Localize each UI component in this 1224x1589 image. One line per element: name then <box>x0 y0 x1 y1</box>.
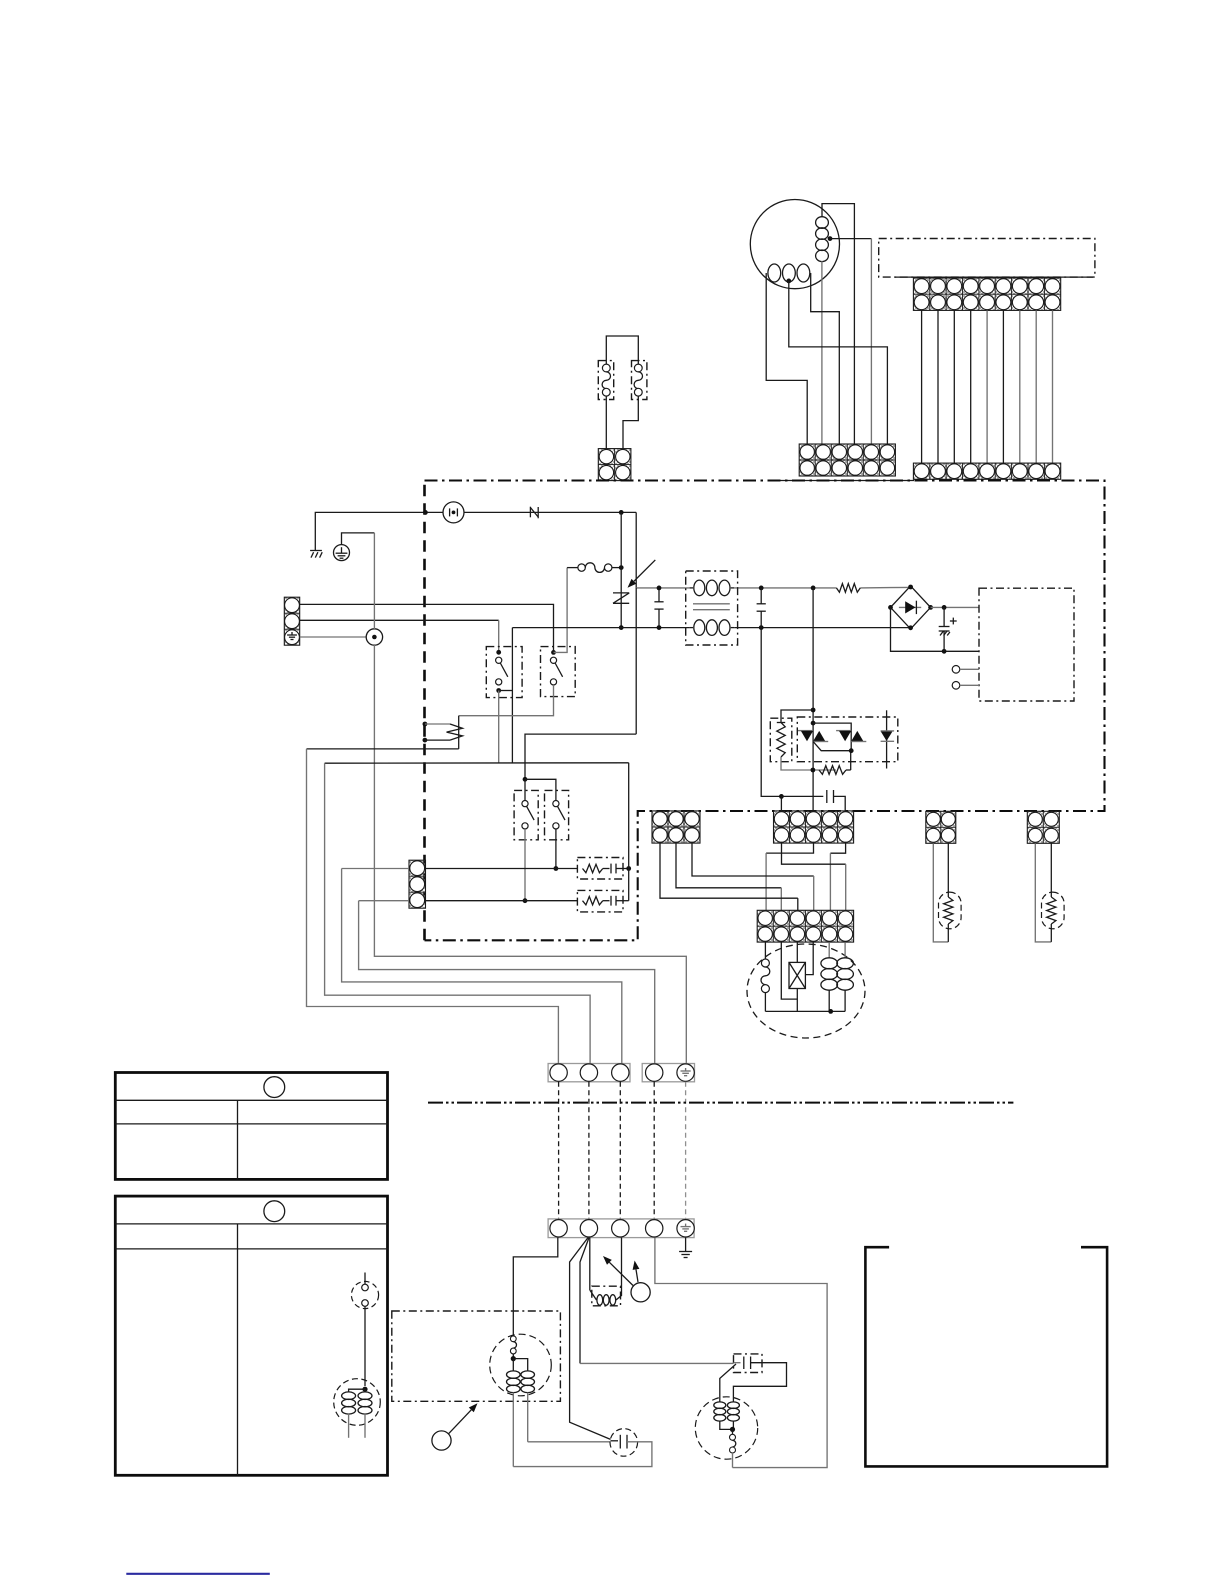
wire feed stub to S4 <box>525 779 556 800</box>
connector CN-PCB block <box>913 278 1060 310</box>
capacitor C1 across rails <box>658 588 660 602</box>
earth stub below ST3 <box>685 1238 687 1252</box>
node element1 to feed drop <box>626 866 631 871</box>
connector CN-TH2 block <box>1027 811 1059 843</box>
outdoor fan assembly dash-dot box <box>392 1311 561 1401</box>
C5 plates <box>734 1362 741 1364</box>
wire feed to PTC resistor <box>781 710 813 723</box>
plus sign of C3 <box>950 620 957 622</box>
relay switch S4 (dash-dot box) <box>545 790 569 839</box>
fan motor FM4 in table (dashed circle) <box>334 1379 381 1426</box>
heater element H2 (dash-dot box with resistor+cutout) <box>577 890 623 912</box>
arrow CL1 up <box>636 1269 638 1282</box>
gate of TR1 <box>813 742 851 751</box>
winding L-main of FM1 (vertical coil) <box>816 217 829 262</box>
diode bridge DB1 <box>891 586 931 629</box>
terminal pin T1 to PCB2 <box>952 666 960 674</box>
varistor branch vertical <box>620 512 622 627</box>
wire C5 left to FM3 left winding (diagonal) <box>720 1364 736 1402</box>
wire TB1-2 to switch S1 (via top) <box>300 619 499 621</box>
indoor control PCB box (dash-dot) <box>879 239 1095 278</box>
compressor winding A <box>828 942 830 958</box>
relay coil L2 (dash-dot box) <box>592 1286 621 1306</box>
relay switch S1 (dash-dot box) <box>486 647 522 698</box>
earth junction circle with dot <box>366 629 382 645</box>
connector CN-TF block <box>598 449 631 481</box>
connector CN-CMP block <box>757 910 853 942</box>
thermal protector TP1 (circle with bars) <box>443 502 464 523</box>
outdoor fan motor FM3 (dashed circle) <box>695 1397 757 1459</box>
thermal fuse TF2 (in dash-dot bracket) <box>632 361 647 400</box>
wire TF2 bottom to connector CN-TF col2 <box>623 396 638 449</box>
capacitor C2 across rails after filter <box>759 586 764 591</box>
terminal strip ST2 (2 circles, earth) <box>642 1064 694 1082</box>
wire R3 up to gate bus <box>850 751 852 770</box>
resistor R1 on live rail <box>836 584 860 593</box>
compressor thermal protector coil <box>764 942 766 959</box>
wire W4 switch1 loop to strip1-c2 <box>325 763 590 1063</box>
node triac feed top <box>811 708 816 713</box>
main earth line (gray) down and across to strip <box>373 533 375 629</box>
wire FM1 aux right lead to connector col3 <box>811 273 840 444</box>
compressor internal protector box with X <box>796 942 798 962</box>
thermistor TH1 (dashed oval box) <box>939 892 962 929</box>
capacitor C6 (dashed circle) <box>610 1429 638 1457</box>
wire DB1 minus output <box>891 607 980 651</box>
wire ST3-c2 fan line b (to run line gray) <box>580 1238 589 1364</box>
connector CN-C2 block <box>774 811 854 843</box>
node junction live rail / varistor branch <box>619 510 624 515</box>
node rail crossing boundary <box>423 510 428 515</box>
node on triac drop at gate resistor line <box>811 768 816 773</box>
wire weave 3x2c1 to 6x2c3 <box>660 843 798 898</box>
remote control box SR (open-top rectangle) <box>865 1247 1107 1466</box>
wire compressor pin4 to protector right <box>805 942 813 974</box>
node tap on FM1 main winding <box>828 236 833 241</box>
diode D2 leg <box>886 710 888 768</box>
arrow CL1 to ST3-c2 <box>609 1262 633 1285</box>
FM3 windings <box>714 1402 726 1421</box>
wire element feed drop from y763 line <box>628 763 630 901</box>
wire neutral line to capacitor C4 <box>781 795 823 797</box>
live AC rail y588 (gray) <box>636 587 689 589</box>
wire feed to S3/S4 junction <box>525 734 636 779</box>
capacitor C3 electrolytic on DC bus <box>943 607 945 626</box>
wire live rail left segment to chassis ground <box>315 512 443 550</box>
earth symbol E1 (circle earth) <box>334 545 350 561</box>
footer blue rule <box>126 1573 269 1575</box>
terminal pin T2 to PCB2 <box>952 682 960 690</box>
FM4 windings <box>349 1389 365 1392</box>
run capacitor C5 box (dash-dot) <box>734 1354 763 1373</box>
wire S4 bottom to element wire 1 <box>555 829 557 869</box>
node triac MT bus <box>811 721 816 726</box>
wire FM1 tap to connector col5 <box>830 238 871 240</box>
FM2 plug contacts and protector <box>510 1336 516 1342</box>
node live rail to triac drop <box>811 586 816 591</box>
connector CN-IN block <box>913 463 1060 479</box>
wire W2 TB2-3 to strip2-c1 <box>359 900 409 902</box>
winding L-aux of FM1 (horizontal coil) <box>768 264 810 282</box>
relay switch S3 (dash-dot box) <box>514 790 538 839</box>
relay switch S2 (dash-dot box) <box>541 647 576 697</box>
wire ST3-c2 to relay coil L2 <box>589 1238 591 1290</box>
wire compressor pin2 to protector bottom <box>781 942 797 999</box>
arrow callout to varistor <box>634 560 655 581</box>
element wire 1 (defrost heater circuit) <box>426 868 578 870</box>
wire TB1-1 to switch S2 (via top) <box>300 604 554 652</box>
indoor fan motor FM2 (dashed circle) <box>490 1334 552 1396</box>
callout circle CL1 with arrows <box>631 1283 650 1302</box>
node S3/S4 feed split <box>523 777 528 782</box>
wire FM3 return to ST3-c4 (gray) <box>732 1453 734 1468</box>
node compressor neutral to 5x2 col1 <box>779 794 784 799</box>
wire weave 5x2c5 to 6x2c5 <box>830 843 845 853</box>
LF1 bottom winding <box>694 620 730 636</box>
wire plug to motor FM4 <box>364 1306 366 1386</box>
node center tap of FM1 aux winding <box>786 279 791 284</box>
wire FM1 main winding bottom to connector col2 <box>821 261 823 444</box>
wire DB1 plus output <box>931 606 979 608</box>
wire TH2 right lead <box>1050 843 1052 897</box>
wire C5 right loop to FM3 right winding <box>733 1363 786 1402</box>
wire TH1 loop left (gray) <box>933 843 948 942</box>
heater element H1 (dash-dot box with resistor+cutout) <box>577 858 623 880</box>
wire C4 right to 5x2 col5 <box>834 796 846 811</box>
wire weave 5x2c3 to 6x2c1 <box>766 843 813 853</box>
wire AC rail west vertical (x512) down to long run <box>511 628 513 764</box>
wire S2 top stub to fuse F1 <box>554 568 568 653</box>
wire ST3-c2 fan line a (to capacitor C6) <box>570 1238 611 1440</box>
legend table T1 <box>115 1073 387 1180</box>
terminal strip ST1 (3 circles) <box>548 1064 630 1082</box>
wire TF1 bottom to connector CN-TF col1 <box>605 396 607 449</box>
wire FM1 aux center tap to connector col6 <box>789 281 888 444</box>
capacitor C4 (series) <box>826 790 828 803</box>
wire ST3-c1 to indoor fan motor FM2 <box>513 1238 558 1335</box>
LF1 core lines <box>693 603 730 605</box>
line filter LF1 (dash-dot box) <box>686 571 738 645</box>
wire boundary solid segment under CN-FM <box>779 480 914 482</box>
wire weave 3x2c3 to 6x2c4 <box>692 843 814 876</box>
thermistor TH2 (dashed oval box) <box>1042 892 1065 929</box>
element wire 2 <box>426 900 578 902</box>
compressor winding B <box>844 942 846 958</box>
wire S3 bottom to element wire 2 (gray) <box>524 829 526 901</box>
wire MT bus to triac2 <box>813 723 851 751</box>
LF1 top winding <box>694 580 730 596</box>
PTC resistor R2 element <box>777 722 785 724</box>
wire W5 switch2 loop to strip1-c1 <box>307 749 559 1064</box>
wire S2 bottom to heater loop <box>459 685 554 716</box>
wire feed vertical x636 down from rails <box>635 588 637 734</box>
compressor CM (dashed circle) <box>747 944 865 1038</box>
wire triac drop vertical x813 <box>812 588 814 811</box>
terminal block TB2 <box>409 860 426 908</box>
wire neutral drop from C2 node to compressor feed line <box>761 628 781 797</box>
connector CN-FM block <box>799 444 895 476</box>
wire weave 3x2c2 to 6x2c2 <box>676 843 781 888</box>
wire W3 TB2-1 to strip1-c3 <box>342 868 409 870</box>
node fuse junction on varistor branch <box>619 565 624 570</box>
wire live rail corner down to filter rail <box>635 512 637 588</box>
FM3 common node and protector <box>720 1421 733 1429</box>
wire bridge joining TF1 and TF2 tops <box>606 336 638 364</box>
wire C6 right loop to FM2 (gray) <box>513 1442 652 1467</box>
DB1 inner diode symbol <box>899 606 921 608</box>
plug P1 in table (dashed circle) <box>351 1281 378 1308</box>
callout circle CL2 with arrow to box <box>432 1431 451 1450</box>
varistor VA1 symbol <box>613 592 629 594</box>
node varistor to neutral rail <box>619 625 624 630</box>
wire earth E1 to main earth line <box>342 533 375 545</box>
panel heater PH symbol on boundary <box>423 722 428 727</box>
PTC resistor box (dash-dot) <box>770 718 792 762</box>
wire TB1-earth to earth junction circle <box>300 636 367 638</box>
fan motor FM1 (indoor fan motor) <box>750 200 839 289</box>
triac TR1 <box>798 730 813 732</box>
outdoor control PCB box PCB2 (dash-dot) <box>979 588 1074 701</box>
wire FM2 winding returns (gray) <box>512 1393 514 1467</box>
unit separation line (dash-dot-dot) <box>428 1102 1013 1104</box>
wire FM1 top lead to connector col4 <box>822 204 854 444</box>
earth mark inside TB1 bottom cell <box>291 632 293 635</box>
wire FM1 aux left lead to connector col1 <box>766 273 807 444</box>
FM4 leads out (gray) <box>348 1414 350 1438</box>
triac TR2 <box>836 730 851 732</box>
wire harness PCB to indoor terminal row (9 wires) <box>921 310 923 463</box>
resistor R3 (gate) <box>819 766 846 775</box>
breaker symbol N on live rail <box>529 507 531 518</box>
chassis ground symbol (bar + 3 slashes) <box>310 550 322 552</box>
triac module box (dash-dot) <box>797 717 898 762</box>
legend table T2 <box>115 1196 387 1475</box>
connector CN-TH1 block <box>926 811 956 843</box>
neutral AC rail y627 <box>512 627 689 629</box>
wire S1 bottom stub to AC rail west vertical <box>499 690 513 692</box>
wire TH2 loop left (gray) <box>1035 843 1051 942</box>
terminal block TB1 <box>284 597 299 645</box>
wire TH1 right lead <box>947 843 949 897</box>
terminal strip ST3 (5 circles, earth) <box>548 1219 694 1238</box>
wire live rail right of TP1 <box>464 511 636 513</box>
fuse F1 (two circles) <box>567 567 578 569</box>
wire long run y763 from x324 to x628 <box>325 762 629 764</box>
thermal fuse TF1 (in dash-dot bracket) <box>598 361 613 400</box>
connector CN-C1 block <box>652 811 700 843</box>
wire PCB box bottom edge <box>895 276 1094 278</box>
FM2 windings <box>512 1359 514 1371</box>
wire L2 right lead to ST3-c3 <box>616 1238 622 1300</box>
outdoor unit boundary box (dash-dot) <box>425 481 1105 941</box>
compressor common bottom wire <box>765 1010 845 1012</box>
wire PTC bottom to gate resistor line <box>781 757 836 770</box>
wire S1 bottom gray drop <box>498 691 500 764</box>
wire weave 5x2c1 to 6x2c6 <box>782 843 846 864</box>
field wiring dashed links ST to ST3 <box>558 1082 560 1219</box>
